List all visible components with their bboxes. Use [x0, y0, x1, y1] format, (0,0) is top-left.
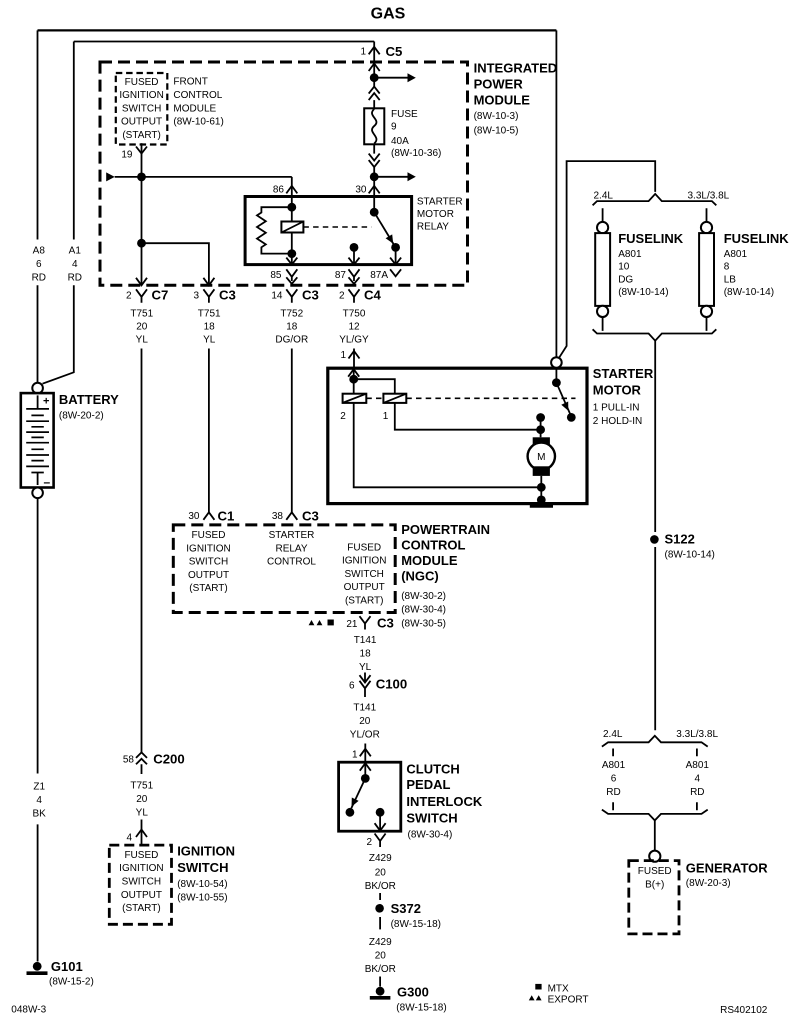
svg-text:(START): (START) [345, 596, 384, 607]
export/mtx marks [309, 620, 315, 625]
svg-text:FUSED: FUSED [124, 850, 158, 861]
wire coil1 to motor [395, 403, 541, 430]
svg-text:T751: T751 [130, 309, 153, 320]
svg-text:(START): (START) [122, 903, 161, 914]
generator bracket bottom [602, 810, 708, 821]
wire to S122 [654, 341, 656, 731]
wire C3 to PCM pin 30 [208, 349, 210, 513]
legend EXPORT [529, 995, 535, 1000]
fuselink bracket bottom [593, 329, 717, 340]
svg-text:POWER: POWER [474, 77, 524, 92]
connector C4 pin 2 [349, 289, 360, 302]
svg-text:GAS: GAS [371, 5, 406, 22]
svg-text:85: 85 [270, 270, 282, 281]
node contact [536, 413, 545, 422]
svg-text:C1: C1 [218, 508, 235, 523]
svg-text:IGNITION: IGNITION [119, 863, 163, 874]
starter switch arm [556, 383, 570, 415]
wire A1 feed top [74, 41, 374, 43]
svg-text:DG: DG [618, 274, 633, 285]
svg-text:(NGC): (NGC) [401, 569, 439, 584]
svg-text:3.3L/3.8L: 3.3L/3.8L [688, 190, 730, 201]
front control module box [116, 73, 168, 145]
svg-text:A801: A801 [618, 249, 642, 260]
svg-text:INTEGRATED: INTEGRATED [474, 61, 558, 76]
connector C5 pin 1 [373, 42, 375, 78]
svg-text:1: 1 [383, 411, 389, 422]
legend MTX [535, 984, 541, 990]
wire coil2 return [354, 403, 542, 487]
svg-text:C7: C7 [152, 287, 169, 302]
wire feed to relay pin 86 [115, 176, 292, 178]
svg-text:86: 86 [273, 184, 285, 195]
svg-text:EXPORT: EXPORT [548, 995, 589, 1006]
clutch switch common node [361, 774, 370, 783]
connector clutch pin 1 [364, 744, 366, 763]
svg-text:FUSELINK: FUSELINK [724, 231, 790, 246]
svg-text:SWITCH: SWITCH [189, 557, 228, 568]
connector C3 pin 3 [203, 278, 214, 286]
svg-text:YL: YL [203, 335, 216, 346]
ground starter motor [537, 496, 546, 505]
svg-text:T751: T751 [198, 309, 221, 320]
wire contact to motor [540, 418, 542, 438]
relay contact 87 node [350, 243, 359, 252]
wire B+ to switch [555, 368, 557, 383]
svg-text:LB: LB [724, 274, 737, 285]
svg-text:(8W-10-61): (8W-10-61) [173, 117, 223, 128]
node C5 fuse top [370, 73, 379, 82]
svg-text:4: 4 [695, 774, 701, 785]
continuation arrow right mid [374, 176, 407, 178]
svg-text:18: 18 [360, 648, 372, 659]
svg-text:FUSE: FUSE [391, 109, 418, 120]
svg-text:58: 58 [123, 755, 135, 766]
svg-text:OUTPUT: OUTPUT [344, 582, 385, 593]
svg-text:C3: C3 [219, 287, 236, 302]
connector C3 pin 21 [360, 616, 371, 629]
svg-text:FUSED: FUSED [192, 530, 226, 541]
splice S122 [650, 535, 659, 544]
wire C3 to PCM pin 38 [291, 349, 293, 513]
svg-text:+: + [43, 396, 49, 408]
relay coil [281, 222, 303, 233]
svg-text:CONTROL: CONTROL [173, 90, 222, 101]
node B [137, 239, 146, 248]
wire Z1 battery to G101 [37, 498, 39, 961]
svg-text:(8W-10-36): (8W-10-36) [391, 148, 441, 159]
svg-text:C5: C5 [386, 44, 403, 59]
starter motor relay box [245, 197, 412, 265]
clutch contact node right [376, 808, 385, 817]
svg-text:(8W-10-14): (8W-10-14) [618, 287, 668, 298]
motor M1 [533, 437, 550, 446]
svg-text:YL: YL [136, 335, 149, 346]
svg-text:SWITCH: SWITCH [122, 877, 161, 888]
svg-text:30: 30 [188, 511, 200, 522]
connector clutch pin 2 [375, 834, 386, 848]
svg-text:T750: T750 [343, 309, 366, 320]
svg-text:20: 20 [375, 868, 387, 879]
battery negative terminal [32, 488, 43, 499]
svg-text:RD: RD [690, 787, 704, 798]
wire below S372 [379, 917, 381, 929]
wire clutch pin 2 [379, 812, 381, 831]
svg-text:(8W-10-3): (8W-10-3) [474, 111, 519, 122]
svg-text:YL/OR: YL/OR [350, 730, 380, 741]
wire coil bottom [291, 233, 293, 254]
starter node pin1 [349, 375, 358, 384]
svg-text:4: 4 [72, 259, 78, 270]
arrowhead into IPM [369, 64, 380, 72]
svg-text:M: M [537, 452, 545, 463]
svg-text:C3: C3 [302, 508, 319, 523]
svg-text:(8W-10-55): (8W-10-55) [177, 892, 227, 903]
svg-text:GENERATOR: GENERATOR [686, 861, 768, 876]
svg-text:(8W-30-5): (8W-30-5) [401, 618, 446, 629]
fuselink A801 8 LB [706, 208, 708, 331]
svg-text:(8W-30-2): (8W-30-2) [401, 591, 446, 602]
wire 87 to edge [353, 247, 355, 264]
svg-text:OUTPUT: OUTPUT [121, 890, 162, 901]
svg-text:Z1: Z1 [33, 782, 45, 793]
svg-text:C3: C3 [377, 616, 394, 631]
starter switch node [552, 378, 561, 387]
svg-text:Z429: Z429 [369, 853, 392, 864]
wire to G300 [379, 977, 381, 987]
connector C3 pin 14 [286, 289, 297, 302]
svg-text:DG/OR: DG/OR [275, 335, 308, 346]
arrowhead into clutch box [360, 763, 371, 771]
connector C7 pin 2 [136, 278, 147, 286]
svg-text:SWITCH: SWITCH [177, 860, 228, 875]
generator terminal [649, 851, 660, 862]
svg-text:–: – [44, 475, 51, 489]
inline connector chevrons above fuse [373, 78, 375, 109]
svg-text:4: 4 [36, 795, 42, 806]
integrated power module box [100, 62, 468, 285]
wire to S372 [379, 893, 381, 900]
svg-text:YL: YL [136, 808, 149, 819]
wire battery feed top [38, 29, 557, 31]
clutch pedal interlock switch box [339, 762, 401, 831]
svg-text:BK: BK [33, 809, 47, 820]
svg-text:IGNITION: IGNITION [342, 556, 386, 567]
svg-text:20: 20 [136, 322, 148, 333]
svg-text:CONTROL: CONTROL [267, 557, 316, 568]
solenoid coil 1 [383, 394, 406, 403]
generator bracket top [602, 736, 708, 747]
wire branch node B to C3 pin 3 [142, 243, 209, 285]
svg-text:YL/GY: YL/GY [339, 335, 369, 346]
starter B+ terminal [551, 357, 562, 368]
svg-text:(8W-20-3): (8W-20-3) [686, 878, 731, 889]
svg-text:G101: G101 [51, 959, 83, 974]
svg-text:S122: S122 [665, 531, 695, 546]
svg-text:12: 12 [348, 322, 360, 333]
wire fuse to relay pin 30 [373, 177, 375, 197]
svg-text:2: 2 [340, 411, 346, 422]
svg-text:C200: C200 [153, 751, 185, 766]
svg-text:T141: T141 [354, 635, 377, 646]
svg-text:BK/OR: BK/OR [365, 881, 396, 892]
wire to pin 85 [291, 254, 293, 265]
svg-text:CONTROL: CONTROL [401, 538, 465, 553]
svg-text:SWITCH: SWITCH [344, 569, 383, 580]
svg-text:FRONT: FRONT [173, 77, 207, 88]
wire to generator [654, 820, 656, 850]
svg-text:38: 38 [272, 511, 284, 522]
node motor top [536, 425, 545, 434]
svg-text:SWITCH: SWITCH [406, 811, 457, 826]
svg-text:RELAY: RELAY [275, 543, 307, 554]
wire 87A to edge [395, 247, 397, 264]
svg-text:SWITCH: SWITCH [122, 103, 161, 114]
inline connector C100 pin 6 [360, 673, 371, 698]
svg-text:(8W-10-5): (8W-10-5) [474, 126, 519, 137]
svg-text:FUSED: FUSED [125, 77, 159, 88]
continuation arrow right top [374, 77, 407, 79]
node motor bottom [537, 483, 546, 492]
svg-text:T141: T141 [353, 703, 376, 714]
svg-text:C4: C4 [364, 287, 382, 302]
svg-text:4: 4 [126, 833, 132, 844]
svg-text:A801: A801 [686, 760, 710, 771]
svg-text:87A: 87A [370, 270, 388, 281]
svg-text:IGNITION: IGNITION [186, 543, 230, 554]
svg-text:STARTER: STARTER [269, 530, 315, 541]
fuselink bracket top [593, 194, 717, 205]
svg-text:POWERTRAIN: POWERTRAIN [401, 522, 490, 537]
svg-text:RELAY: RELAY [417, 222, 449, 233]
svg-text:OUTPUT: OUTPUT [121, 117, 162, 128]
svg-text:(8W-10-14): (8W-10-14) [724, 287, 774, 298]
svg-text:OUTPUT: OUTPUT [188, 570, 229, 581]
relay coil node bottom [287, 249, 296, 258]
svg-text:(8W-20-2): (8W-20-2) [59, 411, 104, 422]
wire A8 [37, 30, 39, 383]
svg-text:2.4L: 2.4L [594, 190, 614, 201]
svg-text:MODULE: MODULE [474, 93, 531, 108]
svg-text:(8W-10-54): (8W-10-54) [177, 879, 227, 890]
svg-text:T752: T752 [280, 309, 303, 320]
svg-text:20: 20 [136, 794, 148, 805]
relay contact 87A node [391, 243, 400, 252]
svg-text:BATTERY: BATTERY [59, 392, 119, 407]
solenoid coil 2 [343, 394, 367, 403]
clutch contact node left [346, 808, 355, 817]
svg-text:(8W-30-4): (8W-30-4) [408, 830, 453, 841]
dashed plunger link [366, 397, 575, 399]
svg-text:19: 19 [121, 150, 133, 161]
svg-text:MODULE: MODULE [173, 103, 216, 114]
svg-text:2.4L: 2.4L [603, 729, 623, 740]
svg-text:S372: S372 [391, 901, 421, 916]
wire to hold-in coil [354, 379, 395, 394]
wire starter B+ drop [555, 30, 557, 357]
svg-text:1: 1 [352, 749, 358, 760]
ground G101 [33, 962, 42, 971]
node fuse bottom [370, 172, 379, 181]
continuation arrow left [106, 172, 115, 181]
wire A1 [43, 42, 74, 384]
wire pin19 to node A [141, 143, 143, 177]
svg-text:2: 2 [366, 837, 372, 848]
battery positive terminal [32, 383, 43, 394]
svg-text:MODULE: MODULE [401, 553, 458, 568]
svg-text:FUSELINK: FUSELINK [618, 231, 684, 246]
dashed actuator link [303, 226, 371, 228]
svg-text:30: 30 [355, 184, 367, 195]
connector C3 pin 38 [286, 512, 297, 520]
ground G300 [376, 987, 385, 996]
svg-text:C100: C100 [376, 677, 408, 692]
svg-text:3.3L/3.8L: 3.3L/3.8L [676, 729, 718, 740]
arrowhead into starter box [348, 369, 359, 377]
inline connector chevrons below fuse [373, 144, 375, 177]
relay coil node top [287, 203, 296, 212]
svg-text:INTERLOCK: INTERLOCK [406, 794, 482, 809]
svg-text:BK/OR: BK/OR [365, 964, 396, 975]
splice S372 [375, 904, 384, 913]
ignition switch box [109, 845, 171, 924]
svg-text:18: 18 [204, 322, 216, 333]
inline connector C200 pin 58 [136, 752, 147, 774]
connector C1 pin 30 [203, 512, 214, 520]
svg-text:2: 2 [126, 291, 132, 302]
svg-text:(8W-15-18): (8W-15-18) [396, 1003, 446, 1014]
svg-text:STARTER: STARTER [417, 197, 463, 208]
svg-text:048W-3: 048W-3 [11, 1005, 46, 1016]
svg-text:STARTER: STARTER [593, 366, 654, 381]
svg-text:1: 1 [340, 350, 346, 361]
svg-text:10: 10 [618, 262, 630, 273]
relay switch arm [374, 212, 395, 246]
svg-text:MTX: MTX [548, 983, 569, 994]
wire C4 to starter pin 1 [353, 349, 355, 369]
relay common node 30 [370, 208, 379, 217]
svg-text:MOTOR: MOTOR [593, 382, 642, 397]
fuse F9 40A [364, 108, 384, 144]
svg-text:40A: 40A [391, 136, 409, 147]
svg-text:IGNITION: IGNITION [177, 843, 235, 858]
svg-text:(8W-10-14): (8W-10-14) [665, 550, 715, 561]
svg-text:RD: RD [606, 787, 620, 798]
resistor (relay) [257, 207, 292, 253]
svg-text:FUSED: FUSED [638, 866, 672, 877]
svg-text:A1: A1 [69, 246, 82, 257]
svg-text:A801: A801 [602, 760, 626, 771]
wire coil top [291, 207, 293, 221]
svg-text:T751: T751 [130, 781, 153, 792]
svg-text:(8W-15-2): (8W-15-2) [49, 977, 94, 988]
svg-text:(START): (START) [122, 130, 161, 141]
wire to pull-in coil [353, 379, 355, 394]
svg-text:20: 20 [359, 716, 371, 727]
connector starter pin 1 [349, 351, 360, 359]
svg-text:MOTOR: MOTOR [417, 209, 454, 220]
svg-text:Z429: Z429 [369, 937, 392, 948]
wire C7 to C200 [141, 349, 143, 753]
node A [137, 173, 146, 182]
svg-text:G300: G300 [397, 984, 429, 999]
svg-text:RD: RD [68, 273, 82, 284]
svg-text:(8W-30-4): (8W-30-4) [401, 605, 446, 616]
connector ignition pin 4 [141, 820, 143, 846]
svg-text:21: 21 [346, 619, 358, 630]
svg-text:A801: A801 [724, 249, 748, 260]
powertrain control module box [173, 525, 395, 613]
svg-text:FUSED: FUSED [347, 542, 381, 553]
svg-text:20: 20 [375, 950, 387, 961]
svg-text:RD: RD [32, 273, 46, 284]
starter motor box [328, 368, 587, 503]
svg-text:(START): (START) [189, 583, 228, 594]
battery [21, 393, 54, 489]
svg-text:B(+): B(+) [645, 879, 664, 890]
svg-text:(8W-15-18): (8W-15-18) [391, 919, 441, 930]
starter contact node [567, 413, 576, 422]
svg-text:18: 18 [286, 322, 298, 333]
generator box [629, 861, 679, 934]
svg-text:1 PULL-IN: 1 PULL-IN [593, 402, 640, 413]
svg-text:CLUTCH: CLUTCH [406, 761, 459, 776]
svg-text:1: 1 [360, 47, 366, 58]
wire node A to node B [141, 177, 143, 243]
svg-text:6: 6 [349, 680, 355, 691]
fuselink A801 10 DG [602, 208, 604, 331]
dashed wire stubs gen [613, 749, 697, 811]
wire motor to ground [540, 476, 542, 497]
wire node B to C7 pin 2 [141, 243, 143, 285]
svg-text:A8: A8 [33, 246, 46, 257]
svg-text:2 HOLD-IN: 2 HOLD-IN [593, 416, 642, 427]
svg-text:YL: YL [359, 662, 372, 673]
clutch switch arm [351, 778, 365, 808]
svg-text:6: 6 [611, 774, 617, 785]
svg-text:9: 9 [391, 122, 397, 133]
svg-text:6: 6 [36, 259, 42, 270]
svg-text:2: 2 [339, 291, 345, 302]
svg-text:RS402102: RS402102 [720, 1005, 768, 1016]
svg-text:14: 14 [271, 291, 283, 302]
wire starter B+ riser [559, 161, 656, 358]
svg-text:PEDAL: PEDAL [406, 777, 450, 792]
svg-text:IGNITION: IGNITION [119, 90, 163, 101]
svg-text:C3: C3 [302, 287, 319, 302]
svg-text:87: 87 [335, 270, 347, 281]
svg-text:3: 3 [193, 291, 199, 302]
svg-text:8: 8 [724, 262, 730, 273]
